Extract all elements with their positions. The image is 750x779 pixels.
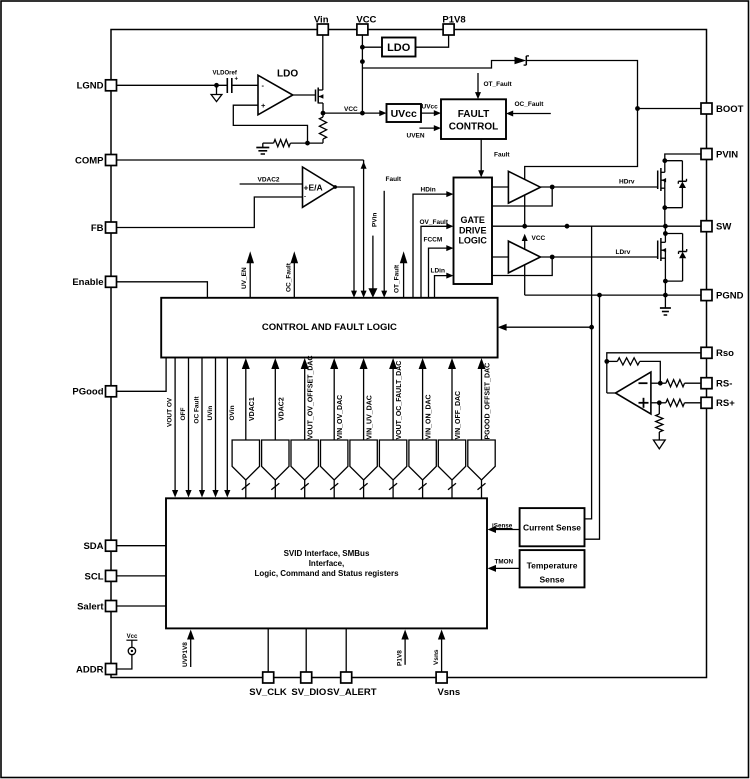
- wire UVcc to FAULT CONTROL, label UVcc: [421, 104, 441, 117]
- svg-text:Fault: Fault: [386, 176, 402, 183]
- svg-text:BOOT: BOOT: [716, 104, 744, 115]
- wire SV_DIO: [305, 628, 307, 672]
- wire low FET source to PGND: [664, 281, 666, 295]
- wire OFF control to SVID: [180, 358, 192, 498]
- op-amp LDO regulator: [258, 69, 298, 115]
- resistor divider bottom (horizontal): [274, 140, 291, 147]
- wire OVin control to SVID: [224, 358, 236, 498]
- svg-text:OC_Fault: OC_Fault: [285, 262, 292, 292]
- svg-text:P1V8: P1V8: [397, 650, 404, 666]
- block Current Sense: [520, 508, 585, 546]
- wire low driver VCC supply and return: [522, 234, 546, 295]
- node PGND/sense: [597, 293, 602, 298]
- svg-text:FCCM: FCCM: [424, 237, 443, 244]
- wire OT_Fault into FAULT CONTROL top: [475, 73, 513, 99]
- node feedback/output: [604, 359, 609, 364]
- svg-text:VOUT OV: VOUT OV: [167, 397, 174, 427]
- svg-text:LDrv: LDrv: [616, 249, 631, 256]
- pin FB: [91, 222, 117, 234]
- wire SW rail: [492, 225, 707, 227]
- wire LDO output to pass FET gate: [293, 94, 316, 96]
- svg-text:Enable: Enable: [72, 277, 103, 288]
- pin PGND: [701, 290, 744, 302]
- svg-text:ADDR: ADDR: [76, 664, 104, 675]
- DAC VDAC1: [232, 358, 259, 498]
- svg-text:RS+: RS+: [716, 398, 735, 409]
- wire iSense arrow to SVID: [488, 522, 520, 533]
- block GATE DRIVE LOGIC: [454, 178, 493, 285]
- ground (3-bar below PGND): [660, 295, 671, 315]
- svg-text:SW: SW: [716, 222, 731, 233]
- node non-inverting input: [657, 400, 662, 405]
- node BOOT junction: [635, 106, 640, 111]
- svg-text:OT_Fault: OT_Fault: [484, 81, 513, 88]
- wire OC Fault control to SVID: [194, 358, 206, 498]
- wire P1V8 arrow: [397, 630, 409, 667]
- wire/resistor RS+ input: [651, 399, 707, 406]
- wire low driver feedback: [492, 257, 552, 276]
- transistor Q1 high-side FET: [658, 161, 666, 208]
- capacitor VLDOref: [213, 71, 239, 94]
- wire Salert: [111, 605, 166, 607]
- node LGND/cap junction: [214, 83, 219, 88]
- DAC VOUT_OC_FAULT_DAC: [379, 358, 406, 498]
- svg-text:OFF: OFF: [180, 407, 187, 420]
- svg-text:VDAC2: VDAC2: [278, 397, 285, 421]
- wire bootstrap feed from VCC: [362, 61, 514, 69]
- svg-text:VDAC2: VDAC2: [258, 177, 280, 184]
- svg-text:OV_Fault: OV_Fault: [420, 219, 449, 226]
- svg-text:Rso: Rso: [716, 348, 734, 359]
- transistor Q2 low-side FET: [658, 234, 666, 282]
- IC chip boundary: [111, 30, 707, 678]
- node low FET source: [663, 279, 668, 284]
- pin Rso: [701, 347, 734, 359]
- node VCC/bootstrap branch: [360, 59, 365, 64]
- svg-text:OVin: OVin: [229, 405, 236, 420]
- wire SV_CLK: [267, 628, 269, 672]
- wire VCC rail to UVcc, label VCC: [323, 106, 387, 116]
- op-amp current sense: [616, 372, 651, 414]
- svg-text:LOGIC: LOGIC: [458, 236, 487, 246]
- wire COMP line with up arrow and down into control logic: [111, 160, 367, 298]
- node sense/control tap: [589, 325, 594, 330]
- svg-text:SDA: SDA: [83, 541, 103, 552]
- svg-text:UVcc: UVcc: [422, 104, 439, 111]
- wire PVin sense arrow into control logic: [368, 213, 378, 298]
- svg-text:Current Sense: Current Sense: [523, 523, 581, 533]
- wire HDin: [413, 187, 454, 298]
- wire PVIN pin to high FET drain: [665, 154, 707, 161]
- pin VCC: [356, 15, 376, 36]
- svg-text:VIN_UV_DAC: VIN_UV_DAC: [367, 395, 374, 439]
- pin RS-: [701, 378, 732, 390]
- svg-text:SV_DIO: SV_DIO: [291, 687, 326, 698]
- svg-text:Salert: Salert: [77, 601, 104, 612]
- svg-text:LDO: LDO: [387, 42, 411, 54]
- svg-text:Interface,: Interface,: [309, 559, 345, 568]
- wire OC_Fault output arrow: [285, 251, 298, 297]
- wire LDO box to P1V8 pin: [416, 35, 449, 47]
- ground (3-bar at LDO divider): [256, 143, 269, 154]
- wire PGND rail: [525, 294, 707, 296]
- node VCC/LDO box branch: [360, 45, 365, 50]
- wire UV_EN output arrow: [241, 251, 254, 297]
- svg-text:VIN_OV_DAC: VIN_OV_DAC: [337, 395, 344, 440]
- svg-text:SV_ALERT: SV_ALERT: [327, 687, 377, 698]
- resistor divider top (vertical): [319, 113, 326, 143]
- pin BOOT: [701, 103, 744, 115]
- svg-text:LGND: LGND: [77, 81, 104, 92]
- svg-text:UVcc: UVcc: [391, 108, 417, 120]
- wire gate logic to low driver input: [492, 256, 508, 258]
- wire cap to LDO- input: [232, 84, 258, 86]
- wire VOUT OV control to SVID: [167, 358, 179, 498]
- svg-text:CONTROL AND FAULT LOGIC: CONTROL AND FAULT LOGIC: [262, 322, 397, 333]
- svg-text:SVID Interface, SMBus: SVID Interface, SMBus: [284, 549, 370, 558]
- pin SV_ALERT: [327, 672, 377, 698]
- pin P1V8: [442, 15, 465, 36]
- svg-text:P1V8: P1V8: [442, 15, 465, 26]
- svg-text:VOUT_OV_OFFSET_DAC: VOUT_OV_OFFSET_DAC: [308, 355, 315, 439]
- wire sense tap into control logic right: [498, 324, 592, 331]
- DAC VIN_ON_DAC: [409, 358, 436, 498]
- svg-text:Vsns: Vsns: [433, 649, 440, 665]
- svg-text:Vin: Vin: [314, 15, 329, 26]
- pin PVIN: [701, 149, 738, 161]
- wire UVEN input: [407, 125, 442, 139]
- DAC VIN_OV_DAC: [321, 358, 348, 498]
- wire SW sense down to current sense with control tap: [585, 226, 592, 519]
- wire BOOT node down to high-side driver supply: [525, 109, 638, 227]
- svg-text:SCL: SCL: [85, 571, 104, 582]
- DAC VIN_OFF_DAC: [438, 358, 465, 498]
- svg-text:HDin: HDin: [421, 187, 436, 194]
- wire FCCM: [424, 237, 454, 298]
- block CONTROL AND FAULT LOGIC: [161, 298, 497, 358]
- pin Salert: [77, 601, 116, 613]
- wire OV_Fault: [420, 219, 454, 298]
- wire high driver feedback: [492, 187, 552, 206]
- node high FET source: [662, 205, 667, 210]
- svg-text:UVP1V8: UVP1V8: [182, 642, 189, 667]
- svg-text:DRIVE: DRIVE: [459, 225, 487, 235]
- diode bootstrap (schottky): [515, 56, 530, 65]
- node SW junction: [565, 224, 570, 229]
- node VCC/UVcc rail: [360, 111, 365, 116]
- wire/resistor RS- input: [651, 380, 707, 387]
- resistor RS+ to ground: [656, 403, 663, 440]
- svg-text:COMP: COMP: [75, 155, 104, 166]
- wire gate logic to high driver input: [492, 186, 508, 188]
- svg-text:HDrv: HDrv: [619, 179, 635, 186]
- wire high FET source to SW: [664, 208, 666, 227]
- svg-text:VDAC1: VDAC1: [249, 397, 256, 421]
- svg-text:PGND: PGND: [716, 291, 744, 302]
- svg-text:TMON: TMON: [495, 559, 514, 566]
- wire VCC to LDO box: [362, 46, 382, 48]
- svg-text:PGOOD_OFFSET_DAC: PGOOD_OFFSET_DAC: [485, 363, 492, 440]
- wire FB to E/A: [111, 197, 303, 228]
- svg-text:+: +: [235, 77, 239, 83]
- svg-text:VCC: VCC: [532, 235, 546, 242]
- pin PGood: [72, 386, 116, 398]
- node high FET drain/diode: [662, 158, 667, 163]
- block UVcc: [387, 104, 422, 122]
- svg-text:OT_Fault: OT_Fault: [394, 264, 401, 293]
- node low FET drain/diode: [663, 231, 668, 236]
- svg-text:FAULT: FAULT: [458, 109, 489, 120]
- wire divider bottom rail: [290, 142, 323, 144]
- wire HDrv to high FET gate: [540, 179, 657, 188]
- block FAULT CONTROL: [441, 99, 506, 139]
- svg-text:Sense: Sense: [539, 574, 564, 584]
- node SW/high driver return: [522, 224, 527, 229]
- svg-text:Vsns: Vsns: [437, 687, 460, 698]
- node inverting input: [658, 381, 663, 386]
- svg-text:+: +: [261, 101, 266, 110]
- pin ADDR: [76, 664, 116, 676]
- svg-text:VIN_ON_DAC: VIN_ON_DAC: [426, 394, 433, 439]
- node low driver output: [550, 255, 555, 260]
- wire SCL: [111, 575, 166, 577]
- wire diode to BOOT node: [526, 61, 637, 109]
- wire Enable into control logic: [111, 282, 207, 298]
- svg-text:RS-: RS-: [716, 379, 732, 390]
- block LDO (1.8V regulator): [382, 38, 416, 57]
- wire ADDR to Vcc bias: [111, 634, 138, 669]
- wire resistor to ground: [263, 142, 274, 144]
- svg-text:UVin: UVin: [207, 406, 214, 421]
- block SVID interface: [166, 498, 487, 628]
- wire PGND sense down to current sense: [585, 295, 600, 539]
- buffer high-side driver: [508, 171, 540, 203]
- svg-text:PVIN: PVIN: [716, 149, 738, 160]
- wire Fault arrow into control logic: [381, 176, 402, 298]
- wire LGND to cap: [111, 84, 227, 86]
- svg-text:-: -: [304, 195, 306, 201]
- pin SDA: [83, 540, 116, 552]
- node feedback tap: [305, 141, 310, 146]
- svg-text:SV_CLK: SV_CLK: [249, 687, 287, 698]
- wire LDin: [431, 268, 454, 298]
- buffer low-side driver: [508, 241, 540, 273]
- svg-text:Vcc: Vcc: [127, 634, 138, 640]
- wire Rso to feedback node: [607, 353, 707, 393]
- node SW/FET: [663, 224, 668, 229]
- svg-text:PVin: PVin: [371, 213, 378, 227]
- wire LDO+ feedback path: [233, 105, 307, 143]
- DAC VDAC2: [262, 358, 289, 498]
- ground (open triangle at sense amp): [653, 440, 665, 449]
- node VCC output of LDO: [321, 111, 326, 116]
- diode D2 low FET body diode: [665, 234, 686, 282]
- wire TMON arrow to SVID: [488, 559, 520, 572]
- pin SW: [701, 221, 731, 233]
- block Temperature Sense: [520, 550, 585, 587]
- ground (open triangle at VLDOref): [211, 85, 222, 101]
- DAC VIN_UV_DAC: [350, 358, 377, 498]
- node high driver output: [550, 185, 555, 190]
- svg-text:LDO: LDO: [277, 69, 298, 80]
- pin RS+: [701, 397, 735, 409]
- resistor feedback: [607, 358, 661, 383]
- svg-text:VOUT_OC_FAULT_DAC: VOUT_OC_FAULT_DAC: [396, 361, 403, 440]
- svg-text:UV_EN: UV_EN: [241, 267, 248, 289]
- wire OC_Fault into FAULT CONTROL right: [506, 101, 551, 117]
- svg-text:VCC: VCC: [356, 15, 376, 26]
- wire E/A output into control logic: [333, 185, 357, 298]
- svg-text:Temperature: Temperature: [527, 560, 578, 570]
- wire LDrv to low FET gate: [540, 249, 657, 257]
- svg-text:VIN_OFF_DAC: VIN_OFF_DAC: [455, 391, 462, 440]
- svg-text:Fault: Fault: [494, 152, 510, 159]
- transistor pass FET (LDO output): [316, 88, 324, 114]
- svg-text:CONTROL: CONTROL: [449, 122, 498, 133]
- svg-text:UVEN: UVEN: [407, 133, 425, 140]
- DAC PGOOD_OFFSET_DAC: [468, 358, 495, 498]
- wire OT_Fault output arrow: [394, 251, 408, 297]
- svg-text:OC_Fault: OC_Fault: [515, 101, 545, 108]
- wire BOOT node to BOOT pin: [638, 108, 707, 110]
- wire VCC pin down to VCC rail: [361, 35, 363, 113]
- wire UVin control to SVID: [207, 358, 219, 498]
- svg-text:GATE: GATE: [461, 215, 485, 225]
- node PGND/FET source: [663, 293, 668, 298]
- wire op-amp output: [607, 392, 616, 394]
- wire UVP1V8 arrow: [182, 630, 194, 668]
- wire Fault from FAULT CONTROL to GATE DRIVE LOGIC: [478, 139, 510, 178]
- pin SCL: [85, 570, 117, 582]
- wire PGood to control logic: [111, 358, 166, 392]
- diode D1 high FET body diode: [665, 161, 687, 208]
- pin SV_DIO: [291, 672, 326, 698]
- pin Vin: [314, 15, 329, 36]
- svg-text:Logic, Command and Status regi: Logic, Command and Status registers: [254, 569, 399, 578]
- wire SW to low FET drain: [664, 226, 666, 233]
- svg-text:FB: FB: [91, 223, 104, 234]
- wire SDA: [111, 545, 166, 547]
- wire Vsns arrow: [433, 630, 445, 673]
- pin Vsns: [436, 672, 460, 698]
- pin Enable: [72, 276, 116, 288]
- wire SV_ALERT: [345, 628, 347, 672]
- svg-text:+E/A: +E/A: [304, 183, 323, 193]
- op-amp E/A error amplifier: [303, 167, 336, 207]
- svg-text:PGood: PGood: [72, 387, 103, 398]
- svg-text:VCC: VCC: [344, 106, 358, 113]
- wire Vin pin down to pass FET drain: [322, 35, 324, 90]
- pin COMP: [75, 155, 117, 167]
- wire VDAC2 input to E/A, label VDAC2: [240, 177, 303, 185]
- DAC VOUT_OV_OFFSET_DAC: [291, 355, 318, 498]
- svg-text:LDin: LDin: [431, 268, 445, 275]
- pin LGND: [77, 80, 117, 92]
- svg-text:OC Fault: OC Fault: [194, 396, 201, 424]
- pin SV_CLK: [249, 672, 287, 698]
